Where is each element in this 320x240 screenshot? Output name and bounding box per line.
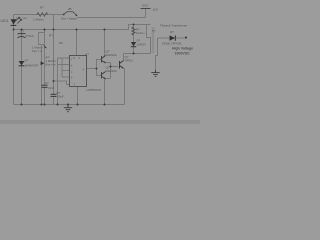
capacitor C2 10nF [51,93,57,95]
wire collector column [104,30,106,57]
wire pin stub y64 [58,64,70,66]
svg-text:Q?: Q? [106,66,110,70]
sheet bottom shade [0,120,200,124]
potentiometer R? arrow [41,61,45,65]
wire ground rail [14,104,125,106]
ground main [64,105,72,112]
svg-text:470uF: 470uF [26,34,34,38]
wire timing column [53,15,55,95]
junction dots [13,24,135,106]
wire q2 emitter stub [106,78,111,80]
svg-text:12V: 12V [153,8,158,12]
wire pot box [39,33,45,45]
svg-text:1N4007GP: 1N4007GP [25,63,39,67]
wire q1 emitter stub [106,62,111,64]
wire pot left leg down [41,45,43,105]
wire pin stub y70 [62,70,70,72]
wire big emitter [124,69,126,105]
wire primary [147,25,151,54]
capacitor C1 10nF [42,84,48,86]
svg-text:High Voltage: High Voltage [172,47,193,51]
svg-text:Flyback Transformer: Flyback Transformer [160,23,187,27]
svg-text:Q?: Q? [106,50,110,54]
svg-text:VCC: VCC [142,3,149,7]
diode D? HV rectifier [170,35,175,40]
wire rail2 [14,25,147,30]
diode D? 1N4007 snubber [131,42,136,46]
resistor R? 10ohm snubber [132,27,135,35]
svg-text:10nF: 10nF [57,94,64,98]
resistor R? 1 Mohm [37,13,48,17]
switch S? Key=Space [63,14,65,16]
wire top rail right [77,17,146,19]
svg-text:R?: R? [40,6,44,10]
svg-text:1000VDC: 1000VDC [175,52,191,56]
svg-text:Key = Space: Key = Space [61,16,77,20]
wire cap1 lower [44,88,46,105]
svg-text:2N2222A: 2N2222A [106,53,117,57]
svg-text:1N4007: 1N4007 [137,42,147,46]
wire pot right column [44,30,46,86]
svg-text:Q?: Q? [125,55,129,59]
svg-text:C?: C? [45,81,49,85]
op-amp U1 555 timer box [70,56,87,87]
wire threshold column [57,58,59,105]
wire pin stub y77 [62,76,70,78]
svg-text:1M: 1M [59,41,64,45]
svg-text:A?: A? [85,52,89,56]
wire q2 emitter down [104,79,106,105]
svg-text:10nF: 10nF [48,86,55,90]
wire HV output [161,37,186,39]
svg-text:Key = a: Key = a [32,49,42,53]
svg-text:Key = a: Key = a [46,63,56,67]
svg-text:LM555CM: LM555CM [87,88,102,92]
capacitor C? 470uF [18,33,26,35]
LED LED1 [11,19,17,25]
wire snubber column [133,25,135,54]
VCC power symbol [141,8,151,10]
svg-text:1 Mohm: 1 Mohm [33,18,44,22]
sheet background [0,0,200,124]
svg-text:DIODE_VIRTUAL: DIODE_VIRTUAL [162,42,182,45]
svg-text:TIP31C: TIP31C [125,59,134,63]
transistor Q3 power [120,61,124,69]
ground secondary [151,70,159,77]
potentiometer wiper arrow [44,45,48,49]
wire 555 out [87,68,97,70]
svg-text:D?: D? [137,38,141,42]
svg-text:T?: T? [152,29,156,33]
wire VCC stem [145,9,147,18]
wire secondary [156,38,158,72]
svg-text:D?: D? [170,30,174,34]
svg-text:R?: R? [49,34,53,38]
wire pin stub y58 [58,57,70,59]
wire 555 gnd stub [77,87,79,105]
wire big collector [123,54,125,61]
diode D? 1N4007GP [19,61,25,65]
wire trigger staircase [54,81,70,85]
wire secondary top [158,37,162,39]
transistor Q1 2N2222A [102,56,106,64]
wire 555 vcc stub [76,30,78,56]
wire top rail left [14,14,64,16]
wire cap-diode column [21,30,23,105]
svg-text:2N2222A: 2N2222A [106,69,117,73]
wire base bus [97,60,102,76]
svg-text:LED_red: LED_red [16,16,27,20]
svg-text:10ohm: 10ohm [136,31,145,35]
svg-text:D?: D? [25,58,29,62]
wire big base [111,66,119,68]
wire discharge column [61,58,63,77]
svg-text:LED1: LED1 [1,19,9,23]
wire cap2 lower leg [53,97,55,105]
transformer core [152,27,154,53]
node High Voltage output [185,37,187,39]
wire emitter bus [110,63,112,79]
transistor Q2 2N2222A [102,72,106,80]
wire LED column [13,15,15,105]
wire collector rail [124,53,151,55]
